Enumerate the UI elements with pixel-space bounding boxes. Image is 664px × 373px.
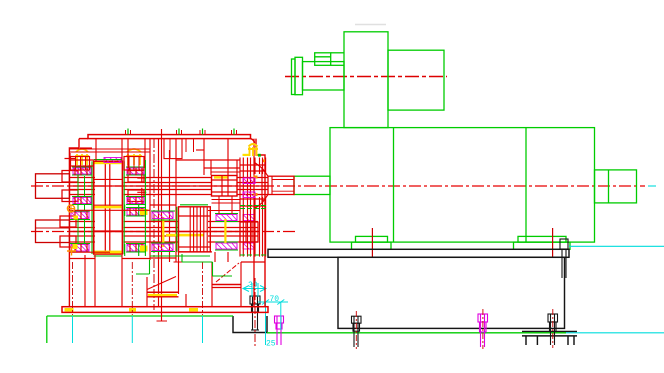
- eyebolt boss left: [71, 157, 90, 171]
- bearing lower shaft left top: [71, 212, 89, 219]
- bearing upper shaft mid top: [127, 168, 144, 174]
- green line under stack: [150, 255, 210, 257]
- foot bolt centerlines under gearbox: [73, 262, 203, 315]
- bearing lower shaft center top: [152, 212, 173, 219]
- orange circle marker upper: [67, 205, 74, 212]
- case split lines: [69, 148, 150, 150]
- motor body: [294, 128, 637, 250]
- mid column cage lines: [129, 168, 131, 176]
- motor foot bolt centerline left: [371, 228, 373, 258]
- anchor bolt gearbox right foot: [250, 296, 260, 330]
- output bearing stack verticals: [239, 158, 241, 257]
- gear clearance green lines: [91, 161, 93, 254]
- bearing output bottom: [243, 192, 255, 198]
- upper housing structure: [69, 159, 93, 161]
- motor right shaft box: [595, 170, 637, 203]
- dimension 70 line: [258, 300, 288, 346]
- anchor bolt 2 magenta under base: [478, 314, 488, 347]
- eyebolt yellow middle: [126, 149, 142, 165]
- housing split line below lower-left bearings: [69, 251, 110, 253]
- ground line right green: [267, 332, 566, 334]
- big gear wheel: [94, 161, 123, 254]
- housing left wall: [69, 139, 79, 307]
- bolt 2 centerline: [482, 309, 484, 349]
- lower shaft solid mid line: [69, 231, 258, 233]
- motor foot bolt centerline right: [552, 228, 554, 258]
- terminal box extension to block: [331, 52, 344, 54]
- step horizontals: [69, 258, 95, 260]
- cover bolts red ticks: [126, 130, 237, 135]
- bearing output top: [243, 178, 255, 184]
- motor foot right: [518, 236, 566, 242]
- blower unit on motor: [292, 32, 445, 128]
- upper shaft core: [69, 177, 95, 179]
- short verticals under cover mid-right: [185, 139, 187, 152]
- bearing lower shaft mid top: [127, 209, 144, 216]
- right sole plate channel: [522, 332, 577, 346]
- anchor bolt magenta near pit: [275, 316, 284, 345]
- foot shim yellow 2: [129, 308, 136, 312]
- green bearing housing mid lower: [124, 244, 126, 256]
- ground left end drop: [46, 316, 48, 343]
- bearing lower shaft center bottom: [152, 244, 173, 251]
- bearing lower output bottom: [243, 243, 255, 249]
- green dot right of eyebolt: [258, 154, 261, 157]
- green verticals left column: [77, 176, 79, 197]
- bearing lower shaft right bottom: [216, 243, 237, 249]
- eyebolt yellow left: [75, 149, 89, 165]
- orange dot below right eyebolt: [262, 159, 265, 162]
- ground line left green: [47, 315, 233, 317]
- yellow strip left of right eyebolt: [243, 154, 250, 156]
- motor division right: [525, 128, 527, 243]
- upper shaft centerline: [31, 185, 645, 187]
- anchor bolt 3 under base: [548, 314, 558, 345]
- bearing cap upper-left: [62, 171, 78, 183]
- green bearing housing mid upper: [124, 205, 126, 216]
- housing bottom flange: [62, 307, 268, 313]
- gearbox top cover slab: [79, 135, 255, 143]
- small yellow square lower: [73, 244, 78, 249]
- svg-text:25: 25: [266, 340, 276, 349]
- svg-text:70: 70: [270, 295, 280, 304]
- dimension 30 line: [243, 283, 266, 297]
- blower barrel: [303, 62, 345, 90]
- green profile staircase right: [182, 254, 232, 276]
- housing right wall: [256, 139, 265, 307]
- bearing cap mid upper: [128, 171, 144, 183]
- middle wall column: [149, 139, 151, 260]
- orange cross marker lower: [67, 247, 76, 256]
- middle column boss: [164, 139, 182, 159]
- output coupling red half: [268, 176, 294, 194]
- anchor bolt far right at rail end: [560, 239, 568, 278]
- lower shaft centerline: [31, 231, 297, 233]
- eyebolt yellow right: [248, 144, 258, 156]
- motor left shaft stub: [294, 176, 330, 194]
- bottom web slab left: [147, 291, 179, 293]
- upper shaft right gear: [212, 176, 238, 197]
- lower shaft gear stack: [179, 207, 211, 252]
- housing right wall inner: [253, 139, 255, 307]
- bearing lower shaft left bottom: [71, 245, 89, 252]
- housing split line at lower bearing top: [69, 209, 150, 211]
- input shaft lower: [36, 220, 70, 243]
- input shaft upper: [36, 174, 70, 199]
- gear mesh mark top: [104, 158, 121, 163]
- bearing cap lower-left: [60, 216, 76, 227]
- upper shaft centerline cyan tail: [648, 185, 656, 187]
- web diagonals: [147, 277, 176, 290]
- green profile staircase left: [136, 260, 150, 274]
- red cross marker 1: [137, 174, 146, 183]
- bottom web slab right: [212, 284, 241, 286]
- left column cage lines: [74, 168, 76, 176]
- output bearing cover cone: [254, 162, 268, 209]
- blower fan cowl: [388, 50, 444, 110]
- blower unit centerline: [285, 76, 447, 78]
- small yellow square upper: [74, 216, 79, 220]
- bolt centerline: [254, 278, 256, 348]
- upper shaft solid mid line: [69, 185, 268, 187]
- eyebolt boss mid: [124, 157, 144, 171]
- red cross marker top-left: [65, 153, 76, 164]
- bearing lower shaft right top: [216, 215, 237, 221]
- motor foot left: [356, 236, 388, 242]
- bottom tick of gear axis: [157, 320, 168, 322]
- green vertical right of column2: [144, 160, 146, 256]
- base main box: [338, 257, 565, 328]
- faint ghost line above blower block: [355, 24, 386, 26]
- red cross marker 2: [137, 188, 146, 197]
- bolt 3 centerline: [552, 309, 554, 348]
- foot shim yellow 1: [65, 308, 74, 312]
- bearing upper shaft mid bottom: [127, 198, 144, 204]
- green dashes output area: [240, 205, 266, 207]
- foundation pit under gearbox: [233, 316, 267, 333]
- bearing lower output top: [243, 215, 255, 221]
- lower shaft core: [69, 221, 95, 223]
- blower main block: [344, 32, 388, 128]
- bearing upper shaft left bottom: [73, 198, 91, 204]
- orange dots right gear: [254, 176, 258, 179]
- right zone horizontals: [212, 199, 241, 201]
- motor division left: [393, 128, 395, 243]
- projection cyan 1: [72, 316, 74, 343]
- anchor bolt 1 under base: [352, 316, 362, 347]
- gear yellow strips: [95, 162, 122, 164]
- foot shim yellow 3: [189, 308, 198, 312]
- blower flange plate inner: [295, 57, 303, 94]
- bearing lower shaft mid bottom: [127, 245, 144, 252]
- gear axis centerline vertical: [153, 139, 155, 310]
- base top rail: [268, 249, 569, 257]
- lower housing ribs: [84, 255, 86, 307]
- blower terminal box: [315, 53, 331, 66]
- yellow vertical spacer middle: [162, 217, 164, 247]
- bearing upper shaft left top: [73, 168, 91, 174]
- projection cyan 2: [131, 316, 133, 343]
- cover bolts green ticks: [128, 129, 234, 135]
- bolt 1 centerline: [355, 311, 357, 349]
- ground line right cyan part: [566, 332, 664, 334]
- yellow spacer vertical: [224, 219, 226, 243]
- projection cyan 3: [202, 316, 204, 343]
- sole plate level cyan line: [569, 245, 664, 247]
- lower output cap: [240, 222, 258, 242]
- blower flange plate outer: [292, 59, 296, 95]
